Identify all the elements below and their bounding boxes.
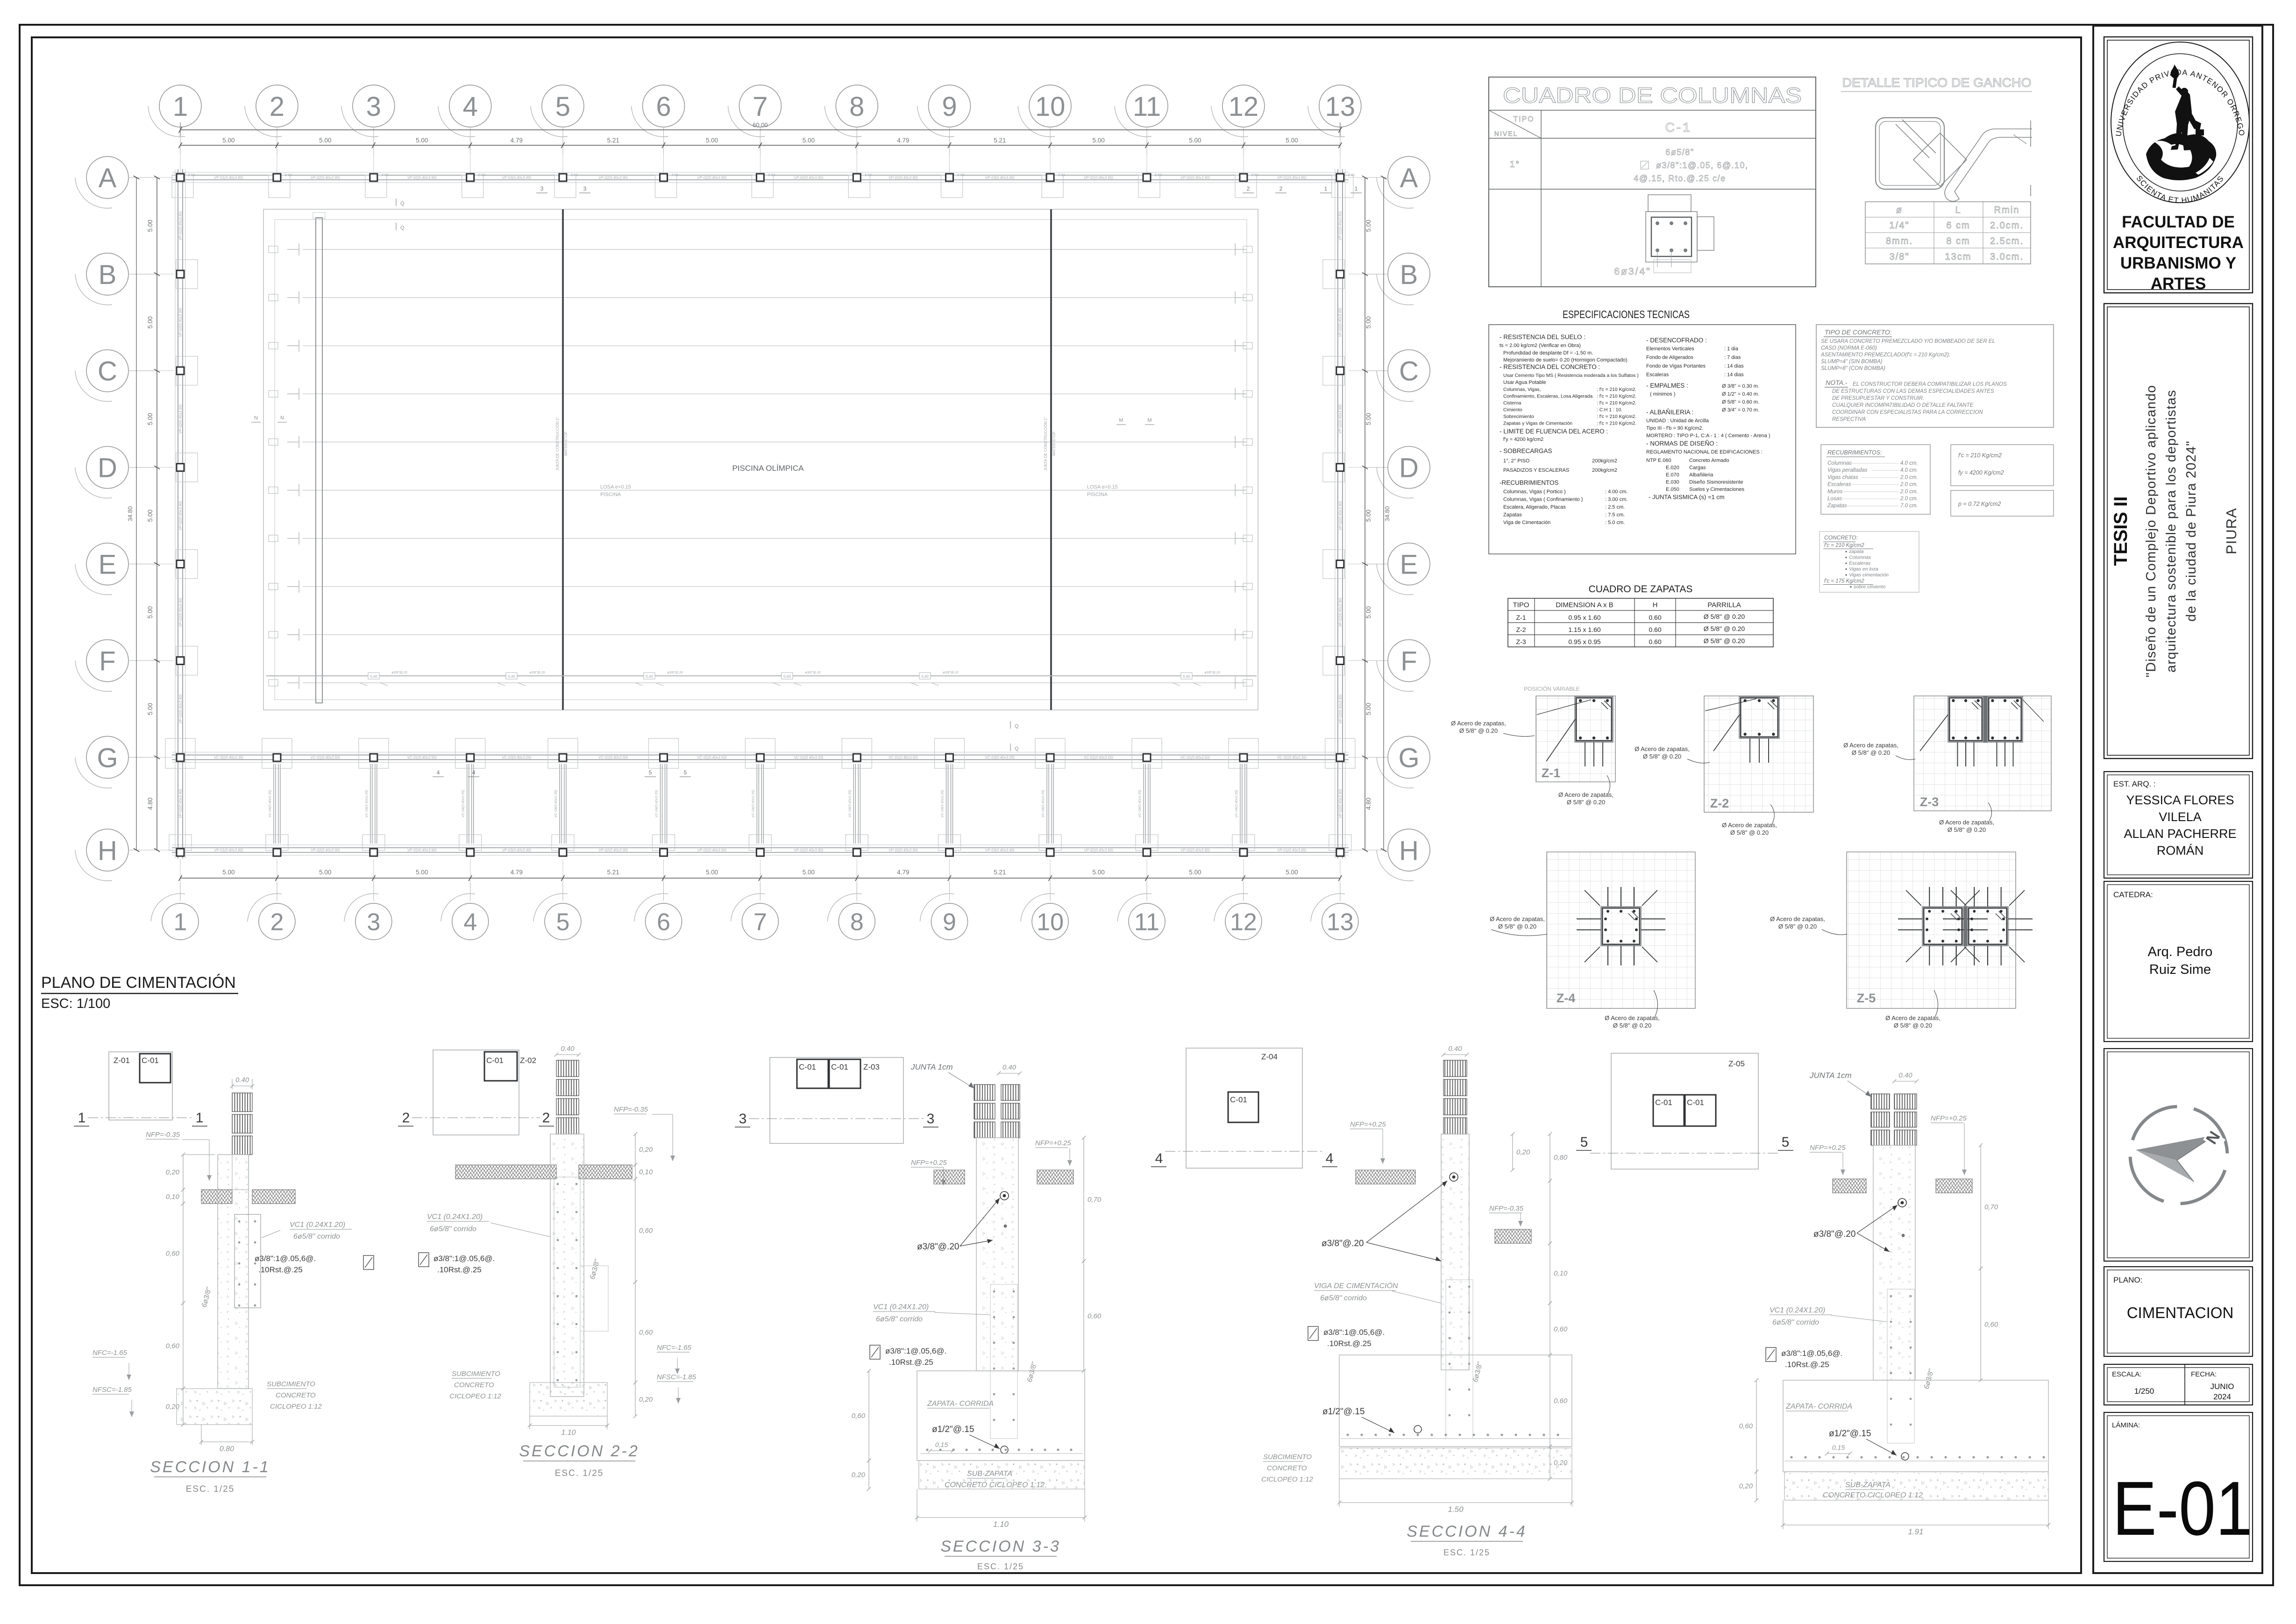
svg-text:Z-3: Z-3: [1516, 638, 1526, 645]
svg-text:SE USARA CONCRETO PREMEZCLA: SE USARA CONCRETO PREMEZCLADO Y/O BOMBEA…: [1821, 339, 1995, 344]
svg-text:0.95 x 1.60: 0.95 x 1.60: [1568, 614, 1600, 621]
top span dimension line: [180, 145, 1340, 146]
svg-text:RECUBRIMIENTOS:: RECUBRIMIENTOS:: [1827, 449, 1882, 456]
svg-text:0,60: 0,60: [1984, 1321, 1998, 1329]
svg-text:Ø 5/8" @ 0.20: Ø 5/8" @ 0.20: [1459, 727, 1498, 734]
svg-text:Usar Agua Potable: Usar Agua Potable: [1503, 380, 1546, 385]
svg-text:2.0 cm.: 2.0 cm.: [1900, 489, 1918, 495]
svg-text:Usar Cemento Tipo MS ( Resiste: Usar Cemento Tipo MS ( Resistencia moder…: [1503, 373, 1639, 378]
svg-text:ARQUITECTURA: ARQUITECTURA: [2113, 234, 2244, 252]
svg-text:VC1 (0.24X1.20): VC1 (0.24X1.20): [427, 1213, 483, 1221]
svg-text:ø3/8"@.20: ø3/8"@.20: [667, 671, 682, 674]
svg-text:: 7.5 cm.: : 7.5 cm.: [1605, 512, 1625, 518]
svg-text:E.050: E.050: [1666, 487, 1679, 492]
svg-text:H: H: [1399, 836, 1419, 866]
section 5 sub-zapata: [1784, 1472, 2048, 1500]
svg-text:Ø 5/8" @ 0.20: Ø 5/8" @ 0.20: [1704, 637, 1745, 645]
svg-text:12: 12: [1229, 92, 1259, 122]
svg-text:11: 11: [1134, 909, 1159, 936]
svg-text:f'c = 175 Kg/cm2: f'c = 175 Kg/cm2: [1824, 579, 1864, 584]
svg-text:VC-04(0.40x3.35): VC-04(0.40x3.35): [268, 790, 272, 818]
svg-text:VP-02(0.40x3.90): VP-02(0.40x3.90): [598, 176, 628, 180]
grid line 6 top leader: [663, 127, 664, 154]
svg-text:6ø5/8" corrido: 6ø5/8" corrido: [293, 1233, 340, 1241]
svg-text:4: 4: [463, 92, 478, 122]
grid bubble 3: [341, 85, 395, 137]
grid bubble 12: [1211, 85, 1265, 137]
svg-text:VC1 (0.24X1.20): VC1 (0.24X1.20): [1770, 1306, 1825, 1314]
svg-text:0,10: 0,10: [1554, 1269, 1568, 1277]
svg-text:5.21: 5.21: [607, 137, 619, 144]
svg-text:- DESENCOFRADO :: - DESENCOFRADO :: [1646, 337, 1707, 344]
svg-text:ROMÁN: ROMÁN: [2157, 844, 2204, 858]
grid bubble 8: [827, 894, 875, 940]
grid bubble E: [75, 543, 128, 595]
section 3-3 twin columns: [974, 1085, 995, 1100]
svg-text:SUB-ZAPATA: SUB-ZAPATA: [1845, 1481, 1891, 1489]
section 4-4 right dim string: [1550, 1134, 1550, 1181]
svg-text:0,40: 0,40: [1183, 674, 1190, 679]
svg-text:6ø5/8" corrido: 6ø5/8" corrido: [1320, 1294, 1367, 1302]
section 5 bottom width dim: [1783, 1525, 2048, 1525]
svg-text:3.0cm.: 3.0cm.: [1990, 252, 2024, 262]
svg-text:Z-02: Z-02: [671, 174, 678, 177]
svg-text:Columnas, Vigas,: Columnas, Vigas,: [1503, 387, 1541, 392]
svg-text:- EMPALMES :: - EMPALMES :: [1646, 382, 1688, 389]
svg-text:Z-02: Z-02: [1058, 174, 1065, 177]
section 3-3 shaft: [976, 1138, 1018, 1371]
grid row C left leader: [128, 370, 157, 371]
grid bubble 12: [1214, 894, 1262, 940]
svg-text:0,60: 0,60: [639, 1227, 653, 1235]
svg-text:ø3/8"@.20: ø3/8"@.20: [805, 671, 820, 674]
svg-text:5.21: 5.21: [994, 869, 1006, 876]
svg-text:RESPECTIVA: RESPECTIVA: [1832, 417, 1866, 422]
svg-text:Z-02: Z-02: [520, 1056, 536, 1065]
svg-text:Vigas chatas: Vigas chatas: [1827, 475, 1858, 480]
svg-text:Vigas peraltadas: Vigas peraltadas: [1827, 468, 1868, 473]
svg-text:Losas: Losas: [1827, 496, 1842, 502]
svg-text:0.40: 0.40: [1448, 1045, 1462, 1053]
svg-text:CATEDRA:: CATEDRA:: [2113, 890, 2153, 899]
svg-text:5.00: 5.00: [319, 869, 331, 876]
tipo de concreto box: [1816, 325, 2054, 427]
svg-text:1.10: 1.10: [561, 1429, 576, 1437]
svg-text:Viga de Cimentación: Viga de Cimentación: [1503, 520, 1550, 525]
svg-text:Ø 5/8" @ 0.20: Ø 5/8" @ 0.20: [1778, 923, 1817, 930]
svg-text:8: 8: [850, 909, 864, 936]
svg-text:2.0 cm.: 2.0 cm.: [1900, 475, 1918, 480]
svg-text:11: 11: [1133, 92, 1161, 122]
svg-text:Ø 5/8" @ 0.20: Ø 5/8" @ 0.20: [1948, 826, 1986, 833]
grid bubble E: [1377, 543, 1430, 595]
svg-text:0,10: 0,10: [639, 1168, 653, 1176]
lamina box: [2104, 1412, 2253, 1561]
grid row H left leader: [128, 850, 157, 851]
svg-text:0,20: 0,20: [1516, 1149, 1530, 1156]
hook detail stirrup square: [1876, 118, 1944, 189]
svg-text:Ø Acero de zapatas,: Ø Acero de zapatas,: [1843, 742, 1898, 749]
svg-text:SUBCIMIENTO: SUBCIMIENTO: [267, 1380, 315, 1388]
svg-text:E.070: E.070: [1666, 472, 1679, 478]
svg-text:SUBCIMIENTO: SUBCIMIENTO: [1263, 1453, 1312, 1461]
svg-text:Ø 3/4" = 0.70 m.: Ø 3/4" = 0.70 m.: [1722, 407, 1759, 413]
svg-text:: 14 dias: : 14 dias: [1724, 372, 1744, 378]
svg-text:ZAPATA- CORRIDA: ZAPATA- CORRIDA: [1785, 1403, 1852, 1411]
section 1-1 left dims: [183, 1155, 184, 1190]
svg-text:EST. ARQ. :: EST. ARQ. :: [2113, 780, 2156, 788]
section 5 ground hatch: [1833, 1179, 1866, 1193]
svg-text:CONCRETO CICLOPEO 1:12: CONCRETO CICLOPEO 1:12: [945, 1481, 1045, 1489]
svg-text:: f'c = 210 Kg/cm2.: : f'c = 210 Kg/cm2.: [1597, 401, 1636, 406]
svg-text:4: 4: [472, 769, 476, 776]
svg-text:5.21: 5.21: [994, 137, 1006, 144]
section 3-3 zapata corrida: [917, 1371, 1085, 1461]
compass N letter: [2203, 1129, 2225, 1150]
svg-text:ø3/8":1@.05,6@.: ø3/8":1@.05,6@.: [1323, 1328, 1385, 1337]
grid row B left leader: [128, 274, 157, 275]
svg-text:13cm: 13cm: [1945, 252, 1972, 262]
svg-text:Columnas: Columnas: [1849, 555, 1871, 560]
grid line 5 top leader: [562, 127, 563, 154]
svg-text:SECCION 1-1: SECCION 1-1: [150, 1458, 270, 1476]
svg-text:0.60: 0.60: [1649, 638, 1661, 645]
svg-text:: 4.00 cm.: : 4.00 cm.: [1605, 489, 1628, 495]
svg-text:CONCRETO: CONCRETO: [454, 1381, 494, 1389]
fc fy box: [1951, 445, 2054, 486]
grid line 1 beam strip: [175, 169, 176, 858]
svg-text:2.0cm.: 2.0cm.: [1990, 220, 2024, 231]
svg-text:Ø 5/8" @ 0.20: Ø 5/8" @ 0.20: [1613, 1022, 1651, 1029]
svg-text:1: 1: [173, 92, 188, 122]
svg-text:0,40: 0,40: [508, 674, 515, 679]
svg-text:13: 13: [1327, 909, 1354, 936]
grid line 1 bottom leader: [180, 859, 181, 883]
svg-text:0.40: 0.40: [561, 1045, 575, 1053]
svg-text:ø3/8":1@.05, 6@.10,: ø3/8":1@.05, 6@.10,: [1656, 161, 1749, 170]
svg-text:NFP=-0.35: NFP=-0.35: [1489, 1205, 1524, 1213]
svg-text:ESC. 1/25: ESC. 1/25: [555, 1468, 604, 1478]
svg-text:D: D: [98, 453, 117, 483]
svg-text:ø3/8"@.20: ø3/8"@.20: [917, 1242, 959, 1252]
grid bubble 5: [533, 894, 581, 940]
svg-text:Z-4: Z-4: [1557, 991, 1576, 1005]
section 1-1 ground hatch: [201, 1190, 232, 1204]
svg-text:VP-02(0.40x3.90): VP-02(0.40x3.90): [598, 848, 628, 852]
svg-text:4.80: 4.80: [1365, 798, 1372, 810]
svg-text:Q: Q: [1015, 723, 1019, 729]
grid line 6 bottom leader: [663, 859, 664, 883]
svg-text:4: 4: [437, 769, 440, 776]
svg-text:Z-02: Z-02: [1155, 174, 1162, 177]
svg-text:EL CONSTRUCTOR DEBERA COMPA: EL CONSTRUCTOR DEBERA COMPATIBILIZAR LOS…: [1853, 382, 2007, 387]
svg-text:PISCINA: PISCINA: [600, 492, 621, 497]
section 3-3 ground hatch: [934, 1170, 965, 1184]
especificaciones tecnicas box: [1489, 325, 1796, 554]
section 1-1 shaft: [218, 1155, 249, 1389]
svg-text:5: 5: [1580, 1135, 1588, 1150]
svg-text:p = 0.72 Kg/cm2: p = 0.72 Kg/cm2: [1958, 501, 2001, 507]
svg-text:Confinamiento, Escaleras, Losa: Confinamiento, Escaleras, Losa Aligerada: [1503, 394, 1592, 399]
svg-text:5.00: 5.00: [1189, 869, 1201, 876]
svg-text:VP-02(0.40x3.90): VP-02(0.40x3.90): [178, 597, 183, 627]
grid line 9 top leader: [949, 127, 950, 154]
svg-text:ESC. 1/25: ESC. 1/25: [186, 1484, 235, 1494]
grid bubble B: [1377, 253, 1430, 305]
svg-text:1: 1: [1355, 185, 1358, 192]
svg-text:CUALQUIER INCOMPATIBILIDAD O: CUALQUIER INCOMPATIBILIDAD O DETALLE FAL…: [1832, 403, 1974, 408]
svg-text:Z-02: Z-02: [1251, 174, 1258, 177]
svg-text:VC-01(0.40x3.50): VC-01(0.40x3.50): [697, 755, 726, 759]
section 3-3 sub-zapata: [919, 1461, 1085, 1489]
svg-text:FACULTAD DE: FACULTAD DE: [2122, 213, 2235, 231]
svg-text:VP-02(0.40x3.90): VP-02(0.40x3.90): [1338, 404, 1343, 434]
section 2-2 ground hatch: [455, 1165, 556, 1179]
svg-text:1/4": 1/4": [1890, 220, 1910, 231]
svg-text:PLANO:: PLANO:: [2113, 1276, 2142, 1284]
svg-text:VP-02(0.40x3.90): VP-02(0.40x3.90): [1084, 848, 1113, 852]
svg-text:: 3.00 cm.: : 3.00 cm.: [1605, 497, 1628, 503]
svg-text:Ø Acero de zapatas,: Ø Acero de zapatas,: [1722, 822, 1777, 829]
svg-text:C: C: [98, 356, 117, 387]
section 4-4 subcimiento: [1339, 1448, 1572, 1479]
svg-text:VP-02(0.40x3.90): VP-02(0.40x3.90): [1338, 694, 1343, 723]
grid bubble 10: [1021, 894, 1068, 940]
svg-text:- SOBRECARGAS: - SOBRECARGAS: [1500, 447, 1552, 454]
svg-text:1: 1: [78, 1110, 86, 1126]
svg-text:LOSA e=0.15: LOSA e=0.15: [600, 484, 631, 490]
svg-text:SLUMP=4" (SIN BOMBA): SLUMP=4" (SIN BOMBA): [1821, 359, 1883, 365]
section 4-4 stirrup note: [1308, 1326, 1318, 1340]
svg-text:C-01: C-01: [486, 1056, 504, 1065]
section 1-1 column above ground: [232, 1085, 252, 1086]
svg-text:Z-02: Z-02: [957, 174, 964, 177]
row H foundation beam strip: [172, 844, 1349, 845]
svg-text:NFC=-1.65: NFC=-1.65: [657, 1344, 691, 1352]
grid bubble 7: [731, 894, 778, 940]
svg-text:0,20: 0,20: [1739, 1482, 1753, 1490]
svg-text:D: D: [1399, 453, 1419, 483]
svg-text:PASADIZOS Y ESCALERAS: PASADIZOS Y ESCALERAS: [1503, 468, 1569, 473]
grid row E left leader: [128, 564, 157, 565]
svg-text:- NORMAS DE DISEÑO :: - NORMAS DE DISEÑO :: [1646, 440, 1718, 447]
svg-text:CUADRO DE COLUMNAS: CUADRO DE COLUMNAS: [1503, 83, 1802, 107]
svg-text:5.00: 5.00: [416, 869, 428, 876]
grid bubble 13: [1308, 85, 1361, 137]
svg-text:3: 3: [366, 92, 381, 122]
svg-text:VC-03(0.40x3.09): VC-03(0.40x3.09): [985, 755, 1015, 759]
svg-text:: 2.5 cm.: : 2.5 cm.: [1605, 504, 1625, 510]
svg-text:13: 13: [1325, 92, 1356, 122]
svg-text:DIMENSION A x B: DIMENSION A x B: [1556, 601, 1613, 609]
svg-text:Columnas, Vigas ( Portico ): Columnas, Vigas ( Portico ): [1503, 489, 1566, 495]
svg-text:2: 2: [1247, 185, 1250, 192]
hook detail bent bar: [1945, 121, 2032, 201]
section 1-1 subcimiento block: [177, 1389, 252, 1425]
svg-text:4: 4: [1155, 1151, 1163, 1166]
svg-text:CONCRETO:: CONCRETO:: [1824, 534, 1858, 541]
svg-text:2: 2: [402, 1110, 410, 1126]
svg-text:DE ESTRUCTURAS CON LAS DEM: DE ESTRUCTURAS CON LAS DEMAS ESPECIALIDA…: [1832, 389, 1994, 394]
svg-text:0,60: 0,60: [166, 1250, 180, 1258]
grid row F left leader: [128, 660, 157, 661]
grid row G right leader: [1348, 757, 1365, 758]
grid bubble B: [75, 253, 128, 305]
svg-text:0.60: 0.60: [1649, 626, 1661, 633]
svg-text:1: 1: [196, 1110, 204, 1126]
svg-text:0,40: 0,40: [921, 674, 929, 679]
section 5 right dims: [1980, 1145, 1981, 1269]
svg-text:NFP=+0.25: NFP=+0.25: [1035, 1139, 1071, 1147]
grid row D left leader: [128, 467, 157, 468]
section 2-2 stirrup note: [419, 1253, 429, 1267]
svg-text:4.0 cm.: 4.0 cm.: [1900, 468, 1918, 473]
grid bubble D: [1377, 447, 1430, 498]
svg-text:VC-04(0.40x3.35): VC-04(0.40x3.35): [940, 790, 944, 818]
svg-text:5: 5: [556, 909, 569, 936]
svg-text:B: B: [99, 260, 117, 290]
grid bubble A: [75, 156, 128, 208]
pool slab outer outline: [263, 209, 1258, 710]
svg-text:Zapatas y Vigas de Cimentación: Zapatas y Vigas de Cimentación: [1503, 421, 1572, 426]
svg-text:3: 3: [540, 185, 544, 192]
svg-text:POSICIÓN VARIABLE: POSICIÓN VARIABLE: [1524, 685, 1580, 692]
svg-text:C-01: C-01: [799, 1063, 816, 1071]
svg-text:5.00: 5.00: [803, 137, 815, 144]
svg-text:5.00: 5.00: [147, 606, 154, 618]
svg-text:Sobrecimiento: Sobrecimiento: [1503, 414, 1534, 419]
svg-text:Ø 5/8" = 0.60 m.: Ø 5/8" = 0.60 m.: [1722, 399, 1759, 405]
svg-text:0,20: 0,20: [166, 1169, 180, 1177]
svg-text:Z-02: Z-02: [768, 174, 775, 177]
svg-text:0,70: 0,70: [1088, 1196, 1102, 1204]
svg-text:Ø Acero de zapatas,: Ø Acero de zapatas,: [1605, 1014, 1660, 1021]
grid line 13 top leader: [1340, 127, 1341, 154]
svg-text:Fondo de Aligerados: Fondo de Aligerados: [1646, 355, 1693, 361]
section 5 rebar cage lower: [1887, 1289, 1914, 1443]
grid bubble 3: [344, 894, 392, 940]
svg-text:Tipo III - f'b = 90 Kg/cm2.: Tipo III - f'b = 90 Kg/cm2.: [1646, 426, 1703, 431]
svg-text:ALLAN PACHERRE: ALLAN PACHERRE: [2124, 827, 2236, 841]
grid row G left leader: [128, 757, 157, 758]
svg-text:Z-02: Z-02: [478, 174, 485, 177]
svg-text:5.00: 5.00: [222, 869, 235, 876]
svg-text:VP-02(0.40x3.90): VP-02(0.40x3.90): [311, 176, 340, 180]
svg-text:3/8": 3/8": [1890, 252, 1910, 262]
svg-text:ASENTAMIENTO PREMEZCLADO(f'c: ASENTAMIENTO PREMEZCLADO(f'c = 210 Kg/cm…: [1820, 352, 1950, 358]
svg-text:Diseño Sismoresistente: Diseño Sismoresistente: [1689, 480, 1743, 485]
svg-text:C-01: C-01: [1687, 1098, 1704, 1107]
svg-text:2.0 cm.: 2.0 cm.: [1900, 496, 1918, 502]
grid line 10 bottom leader: [1050, 859, 1051, 883]
svg-text:NFSC=-1.85: NFSC=-1.85: [657, 1373, 696, 1381]
section 3-3 key plan: [770, 1057, 903, 1143]
svg-text:5.00: 5.00: [1365, 413, 1372, 425]
svg-text:Ø 3/8" = 0.30 m.: Ø 3/8" = 0.30 m.: [1722, 383, 1759, 389]
svg-text:JUNTA 1cm: JUNTA 1cm: [1809, 1071, 1852, 1080]
grid line 3 bottom leader: [373, 859, 374, 883]
svg-text:VC-04(0.40x3.35): VC-04(0.40x3.35): [554, 790, 558, 818]
section 4-4 key plan: [1186, 1048, 1302, 1168]
svg-text:-RECUBRIMIENTOS: -RECUBRIMIENTOS: [1500, 479, 1559, 486]
svg-text:: f'c = 210 Kg/cm2.: : f'c = 210 Kg/cm2.: [1597, 387, 1636, 392]
svg-text:zapata: zapata: [1848, 549, 1864, 554]
svg-text:Z-2: Z-2: [1516, 626, 1526, 633]
svg-text:VP-02(0.40x3.90): VP-02(0.40x3.90): [1180, 848, 1210, 852]
svg-text:5.00: 5.00: [1286, 137, 1298, 144]
svg-text:5.21: 5.21: [607, 869, 619, 876]
svg-text:VP-01(0.40x3.85): VP-01(0.40x3.85): [1338, 211, 1343, 241]
svg-text:N: N: [280, 415, 284, 421]
section 1-1 bottom width dim: [201, 1441, 252, 1442]
svg-text:: 7 dias: : 7 dias: [1724, 355, 1741, 361]
svg-text:VP-02(0.40x3.90): VP-02(0.40x3.90): [178, 308, 183, 337]
svg-text:TIPO: TIPO: [1513, 115, 1534, 123]
section 5 twin columns: [1871, 1094, 1890, 1109]
svg-text:.10Rst.@.25: .10Rst.@.25: [258, 1265, 303, 1274]
svg-text:2: 2: [270, 909, 284, 936]
svg-text:SECCION 4-4: SECCION 4-4: [1407, 1523, 1527, 1540]
svg-text:0,15: 0,15: [935, 1441, 948, 1448]
svg-text:5.00: 5.00: [147, 220, 154, 232]
svg-text:0,20: 0,20: [639, 1146, 653, 1154]
svg-text:5.00: 5.00: [147, 510, 154, 522]
svg-text:4.80: 4.80: [147, 798, 154, 810]
svg-text:NFP=-0.35: NFP=-0.35: [146, 1131, 180, 1139]
svg-text:Ø 5/8" @ 0.20: Ø 5/8" @ 0.20: [1498, 923, 1536, 930]
section 3-3 stirrup note: [870, 1345, 880, 1359]
svg-text:SECCION 2-2: SECCION 2-2: [519, 1442, 640, 1460]
svg-text:0,60: 0,60: [166, 1342, 180, 1350]
svg-text:ø3/8"@.20: ø3/8"@.20: [1204, 671, 1220, 674]
svg-text:4.79: 4.79: [511, 137, 523, 144]
svg-text:0,70: 0,70: [1984, 1203, 1998, 1211]
grid line 8 top leader: [856, 127, 857, 154]
svg-text:Z-01: Z-01: [188, 174, 195, 177]
svg-text:VC-02(0.40x3.35): VC-02(0.40x3.35): [1277, 755, 1307, 759]
svg-text:WATER STOP: WATER STOP: [1052, 432, 1056, 456]
grid bubble 5: [531, 85, 584, 137]
svg-text:SLUMP=8" (CON BOMBA): SLUMP=8" (CON BOMBA): [1821, 366, 1885, 371]
logo globe: [2146, 133, 2216, 180]
svg-text:4.79: 4.79: [897, 137, 909, 144]
svg-text:Z-02: Z-02: [571, 174, 578, 177]
svg-text:VC-04(0.40x3.35): VC-04(0.40x3.35): [847, 790, 852, 818]
svg-text:Z-2: Z-2: [1710, 796, 1729, 810]
svg-text:0.60: 0.60: [1649, 614, 1661, 621]
svg-text:DE PRESUPUESTAR Y CONSTRUIR: DE PRESUPUESTAR Y CONSTRUIR.: [1832, 396, 1924, 401]
svg-text:3: 3: [739, 1111, 747, 1127]
svg-text:2: 2: [1280, 185, 1283, 192]
est arq box: [2104, 772, 2253, 878]
grid bubble 6: [634, 894, 682, 940]
tesis box: [2104, 304, 2253, 759]
section 2-2 key plan: [433, 1050, 519, 1135]
svg-text:ø1/2"@.15: ø1/2"@.15: [1322, 1407, 1365, 1417]
svg-text:VC-04(0.40x3.35): VC-04(0.40x3.35): [1234, 790, 1238, 818]
svg-text:5: 5: [684, 769, 687, 776]
svg-text:VC-01(0.40x3.50): VC-01(0.40x3.50): [1180, 755, 1210, 759]
grid bubble C: [1377, 350, 1430, 402]
grid bubble 4: [441, 894, 489, 940]
svg-text:VP-02(0.40x3.90): VP-02(0.40x3.90): [1338, 597, 1343, 627]
svg-text:5: 5: [1782, 1135, 1790, 1150]
svg-text:12: 12: [1230, 909, 1257, 936]
section 1-1 key plan: [109, 1052, 172, 1120]
svg-text:Z-02: Z-02: [382, 174, 389, 177]
svg-text:200kg/cm2: 200kg/cm2: [1592, 458, 1617, 464]
svg-text:NFP=+0.25: NFP=+0.25: [1350, 1120, 1386, 1128]
